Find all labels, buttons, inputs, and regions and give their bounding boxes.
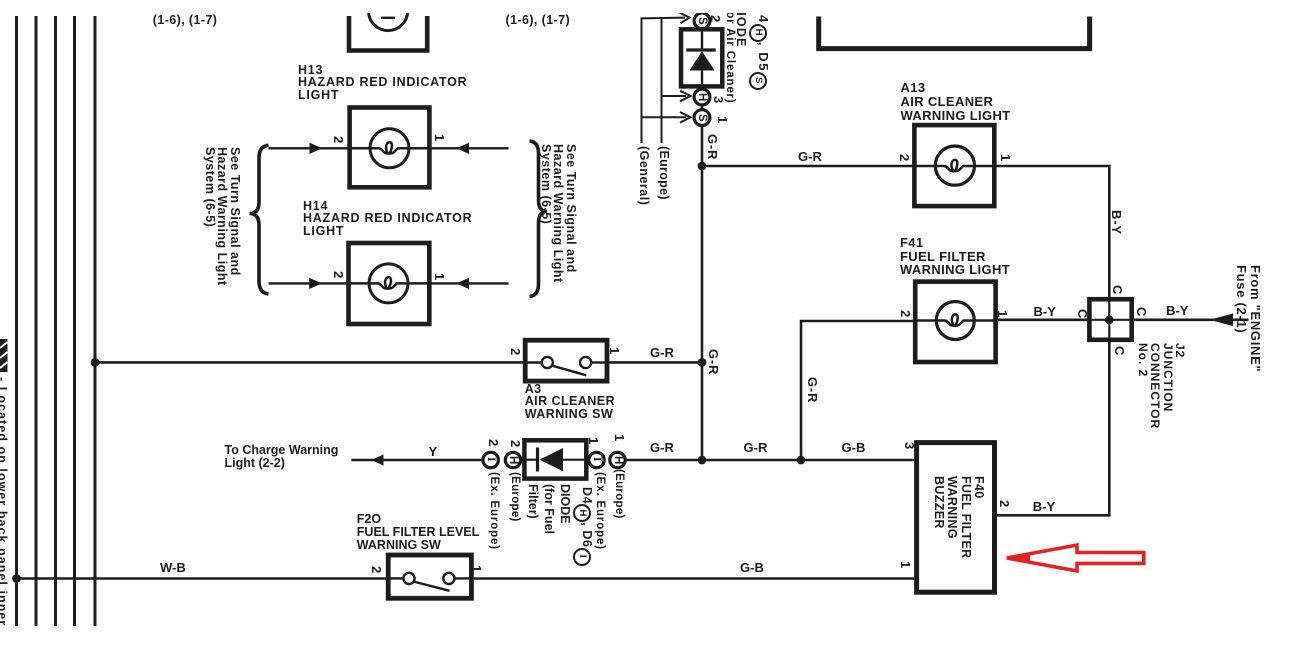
pin 2 at top S connector (709, 15, 722, 22)
letter H in D4 connector circle pin 2 (508, 456, 518, 464)
wire label B-Y rotated (A13 to J2 drop) (1110, 210, 1123, 235)
junction dot G-R bus / D4 row (698, 456, 707, 465)
white page margin band at top (0, 0, 1292, 13)
lamp H14 box (349, 243, 430, 324)
arrowhead into H14 pin 1 (457, 278, 469, 289)
pin 1 F40 (899, 561, 912, 568)
pin 1 F41 (996, 310, 1009, 317)
label DIODE (558, 484, 571, 524)
lamp F41 box (915, 282, 995, 362)
label From ENGINE Fuse (2-1) (1234, 265, 1261, 372)
letter I in D4 connector circle pin 2 (486, 457, 496, 461)
diode D5 box (681, 29, 722, 86)
wire label G-R (A3 out) (650, 346, 674, 360)
wire label G-R rotated (F41 feed) (806, 377, 819, 403)
J2 cavity C top (1111, 285, 1124, 294)
label F41 (900, 236, 1010, 277)
connector H circle pin 3 (694, 89, 710, 105)
label F40 FUEL FILTER WARNING BUZZER (931, 476, 985, 559)
arrowhead into H14 pin 2 (309, 278, 322, 289)
wire label B-Y (F41 to J2) (1034, 305, 1056, 319)
pin 1 F2O (470, 565, 483, 572)
label (for Air Cleaner) (723, 2, 736, 104)
wire: G-R/G-B feed up to F41 pin 2 (801, 321, 915, 460)
left harness bus line 1 (15, 16, 18, 626)
pin 2 A13 (898, 154, 911, 161)
pin 2 H14 (331, 271, 344, 278)
wire stub H to S (701, 105, 704, 110)
pin 1 A13 (998, 154, 1011, 161)
left brace (250, 145, 269, 294)
wire: G-R to A13 pin 2 (702, 165, 914, 168)
lamp A13 bulb circle (935, 146, 974, 185)
label Filter) (526, 484, 539, 519)
(General) option line (641, 18, 643, 144)
option label (Ex. Europe) at D4 pin 1 (593, 472, 606, 550)
branch (Europe) to connector H pin 3 with open arrowhead (662, 91, 691, 102)
lamp F41 internal wire and filament (915, 314, 995, 325)
option label (Europe) at D4 pin 1 (612, 469, 625, 519)
left harness bus line 5 (94, 16, 97, 626)
arrowhead into H13 pin 1 (457, 143, 469, 154)
pin 2 F41 (899, 310, 912, 317)
wire: F2O pin 1 to F40 pin 1 (471, 577, 916, 580)
note Located on lower back panel inner (cut at left edge) (0, 377, 8, 626)
left harness bus line 3 (54, 16, 57, 626)
junction dot on bus line 5 at A3 feed (91, 358, 100, 367)
letter I in D4 connector circle pin 1 (592, 457, 602, 461)
connector H circle D4 pin 1 (610, 452, 625, 467)
J2 internal cross wires (1089, 319, 1131, 321)
option label (Europe) (657, 146, 670, 200)
wire stub H circle to D4 box (521, 459, 525, 461)
switch F2O leads and contacts (388, 573, 471, 591)
arrowhead into H13 pin 2 (310, 143, 323, 154)
J2 cavity C bottom (1112, 346, 1125, 355)
connector I circle D4 pin 2 (483, 452, 498, 467)
lamp F41 bulb circle (936, 302, 974, 340)
wire label W-B (bottom run) (160, 561, 186, 575)
wire: J2 to ENGINE fuse B-Y (1132, 318, 1249, 321)
label H13 (298, 64, 467, 103)
page reference text (1-6), (1-7) (153, 14, 218, 28)
connector I circle D4 pin 1 (589, 452, 604, 467)
wire label G-B (to F40 pin 3) (842, 441, 866, 455)
J2 vertical through wire (1108, 299, 1110, 340)
wire label G-R (D4 row left) (650, 441, 674, 455)
junction dot G-R bus / A13 feed (698, 162, 707, 171)
diode D4 symbol (pointing left) (524, 448, 586, 472)
pin 1 at D4 H connector (612, 434, 625, 441)
label H14 (303, 200, 472, 239)
option label (General) (637, 146, 650, 205)
connector S circle pin 1 (694, 110, 710, 126)
diode D5 symbol (686, 29, 715, 86)
label A13 (901, 81, 1011, 124)
connector S circle pin 2 (top, for diode D5) (694, 13, 710, 29)
label D4(H), D5(S) for air cleaner diode (749, 4, 770, 90)
junction dot G-R bus / A3 switch feed (698, 358, 707, 367)
pin 1 at D4 I connector (587, 437, 600, 444)
pin 2 F40 (998, 500, 1011, 507)
branch (General) to connector S pin 2 with open arrowhead (642, 13, 690, 24)
wire: H13 left lead (269, 147, 350, 149)
pin 1 at S connector (715, 116, 728, 123)
connector H circle D4 pin 2 (505, 452, 520, 467)
switch A3 leads and contacts (525, 357, 607, 375)
pin 1 A3 (607, 347, 620, 354)
wire label B-Y (J2 to fuse) (1166, 304, 1188, 318)
junction dot D4 row / F41 feed (797, 456, 806, 465)
ground location hatch symbol (cut at left edge) (0, 339, 8, 372)
J2 cavity C left (1075, 309, 1088, 318)
wire label Y (429, 445, 438, 459)
wire label B-Y (to F40 pin 2) (1033, 500, 1055, 514)
pin 2 at D4 I connector (487, 439, 500, 446)
wire: Y lead to charge warning light (351, 459, 484, 461)
option label (Europe) at D4 pin 2 (508, 472, 521, 522)
diode D4 box (524, 440, 586, 478)
wire stub diode box to connector H (701, 86, 704, 89)
arrowhead from ENGINE fuse (points left) (1210, 314, 1234, 327)
wire: A13 pin 1 to B-Y drop elbow (994, 166, 1109, 299)
label J2 JUNCTION CONNECTOR No. 2 (1136, 343, 1185, 429)
wire label G-B (bottom run) (740, 561, 764, 575)
letter S in connector circle pin 1 (697, 114, 707, 122)
lamp H13 internal wire and filament (350, 142, 430, 153)
wire: vertical G-R bus from S pin 1 down to D4 row (701, 126, 704, 461)
lamp H13 bulb circle (370, 129, 409, 168)
letter H in D4 connector circle pin 1 (613, 456, 623, 464)
label (for Fuel (542, 484, 555, 534)
label F2O (357, 513, 479, 553)
wire: J2 down to F40 pin 2 elbow (995, 340, 1110, 516)
left harness bus line 4 (73, 16, 76, 626)
wire label G-R rotated (below A3 junction) (707, 349, 720, 375)
wire: H13 right lead (429, 147, 508, 149)
label DIODE (air cleaner, cut) (734, 2, 747, 48)
pin 2 H13 (331, 136, 344, 143)
switch F2O box (388, 555, 471, 598)
label To Charge Warning Light (2-2) (225, 444, 339, 470)
wire label G-R (top feed to A13) (798, 150, 822, 164)
wire: F41 pin 1 B-Y to J2 (996, 318, 1090, 321)
arrowhead to charge warning light (points left) (371, 455, 383, 466)
pin 3 at H connector (711, 96, 724, 103)
wire label G-R (D4 row mid) (744, 441, 768, 455)
pin 2 F2O (369, 566, 382, 573)
left harness bus line 2 (35, 16, 38, 626)
J2 cavity C right (1134, 307, 1147, 316)
buzzer F40 box (917, 443, 995, 593)
wire: H14 right lead (429, 282, 508, 284)
pin 2 A3 (508, 348, 521, 355)
label D4(H), D6(I) (573, 487, 593, 566)
J2 center junction dot (1105, 315, 1114, 324)
lamp H12 filament loop remnant (381, 17, 395, 19)
page reference text (1-6), (1-7) second instance (506, 14, 571, 28)
large component box bottom at top right (cut at top of page) (819, 17, 1090, 49)
wire: bus line 5 to A3 pin 2 (95, 361, 525, 364)
lamp H14 bulb circle (369, 264, 408, 303)
pin 1 H14 (432, 273, 445, 280)
lamp H13 box (350, 108, 430, 188)
junction dot bottom run on bus line 1 (12, 574, 21, 583)
branch (General) to connector S pin 1 with open arrowhead (642, 112, 691, 123)
pin 3 F40 (902, 442, 915, 449)
lamp A13 box (914, 125, 994, 206)
pin 2 at D4 H connector (509, 440, 522, 447)
wire: H14 left lead (269, 282, 349, 284)
right brace (530, 141, 548, 296)
wire stub S to diode box (701, 29, 704, 31)
label A3 (525, 383, 615, 422)
wire: bottom W-B/G-B run (17, 577, 389, 580)
switch A3 box (525, 340, 607, 381)
note left brace: See Turn Signal and Hazard Warning Light System (6-5) (203, 147, 241, 286)
wire: D4 row G-R/G-B into F40 pin 3 (624, 459, 917, 462)
lamp H12 bulb circle lower arc (369, 11, 408, 31)
option label (Ex. Europe) at D4 pin 2 (487, 472, 500, 550)
lamp H14 internal wire and filament (349, 277, 430, 288)
junction connector J2 box (1089, 299, 1131, 340)
note right brace: See Turn Signal and Hazard Warning Light System (6-5) (538, 144, 576, 283)
(Europe) option line (661, 18, 663, 144)
lamp A13 internal wire and filament (914, 160, 994, 171)
red callout arrow at F40 (1006, 545, 1144, 571)
letter S in top connector circle (697, 17, 707, 25)
wire: A3 pin 1 G-R to bus junction (607, 361, 702, 364)
lamp H12 box bottom (cut at top of page) (349, 16, 427, 51)
letter H in connector circle pin 3 (697, 93, 707, 101)
pin 1 H13 (433, 134, 446, 141)
wire label G-R rotated (above A13 junction) (706, 134, 719, 160)
